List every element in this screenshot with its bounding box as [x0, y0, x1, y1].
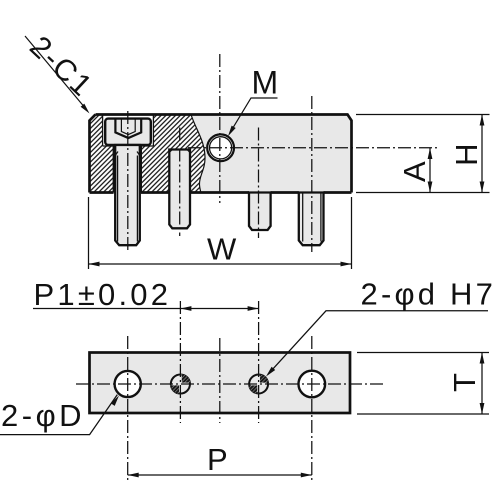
screw clearance hole [114, 146, 141, 193]
block bottom edge segments [90, 191, 352, 194]
screw B1 hex socket inner flats [121, 118, 135, 135]
plan view plate body [90, 353, 351, 414]
centerline hole D1 vertical [127, 336, 129, 480]
svg-text:2-C1: 2-C1 [23, 30, 99, 104]
centerline tapped hole M vertical [219, 54, 221, 203]
dowel pin B3 (below block, right side) [249, 193, 271, 231]
dowel pin B2 body [169, 150, 190, 229]
centerline tapped hole M horizontal [188, 147, 437, 149]
through hole D2 [299, 371, 326, 398]
dimension W extension lines [89, 197, 352, 269]
dimension P1 line with shelf [33, 308, 259, 310]
dimension H extension lines [356, 115, 490, 193]
dowel pin B2 top chamfer [169, 150, 190, 153]
leader 2-C1 [25, 36, 86, 109]
centerline hole D2 vertical [311, 336, 313, 480]
tapped hole M (inner circle) [210, 137, 232, 159]
dimension T extension lines [357, 353, 489, 415]
dimension P line [128, 474, 312, 476]
svg-text:P1±0.02: P1±0.02 [34, 277, 172, 312]
dowel pin B2 hole [169, 150, 190, 193]
screw B1 shank and thread [115, 145, 140, 245]
counterbore cavity C/B [103, 115, 154, 147]
section break line (wavy) [191, 115, 205, 193]
centerline plan horizontal [76, 383, 385, 385]
dowel hole d1 (quadrant hatched) [171, 374, 190, 393]
centerline hole d2 vertical [258, 301, 260, 423]
dimension T line [481, 353, 483, 415]
through hole D1 [115, 371, 141, 397]
centerline casing hole d2 [250, 376, 266, 393]
dowel hole d2 (quadrant hatched) [249, 375, 268, 394]
hatched section region of block [90, 115, 206, 193]
centerline hole d1 vertical [179, 301, 181, 423]
svg-text:2-φD: 2-φD [1, 398, 85, 433]
leader 2-phi-D [0, 395, 117, 435]
svg-text:M: M [252, 65, 279, 101]
leader 2-phi-d H7 [268, 311, 488, 375]
svg-text:2-φd H7: 2-φd H7 [361, 277, 497, 312]
centerline casing hole d1 [172, 376, 189, 393]
svg-text:W: W [207, 232, 237, 267]
centerline pin B3 [258, 128, 260, 239]
svg-text:T: T [447, 373, 482, 392]
svg-text:H: H [449, 144, 484, 166]
block outline (front view) [90, 115, 352, 193]
leader M [230, 98, 278, 133]
svg-text:A: A [397, 161, 432, 182]
screw B1 head [105, 119, 151, 145]
screw B1 neck chamfer [115, 152, 140, 156]
screw B1 thread minor lines [118, 156, 138, 242]
block body (section/front view) [90, 115, 352, 193]
centerline stud B4 [311, 96, 313, 252]
counterbore bottom seat [103, 145, 154, 147]
dimension A line [429, 148, 431, 193]
clearance hole walls [114, 146, 141, 193]
dimension W line [89, 263, 352, 265]
dimension H line [481, 115, 483, 193]
counterbore walls [103, 115, 154, 147]
screw B1 hex socket [115, 118, 141, 138]
tapped hole M (outer thread circle) [207, 134, 234, 161]
threaded stud B4 thread minor lines [303, 193, 321, 242]
centerline screw B1 [127, 111, 129, 252]
centerline tapped hole M vertical (plan) [219, 338, 221, 423]
svg-text:P: P [207, 442, 228, 477]
threaded stud B4 (below block, right side) [299, 193, 324, 246]
centerline pin B2 [179, 128, 181, 237]
